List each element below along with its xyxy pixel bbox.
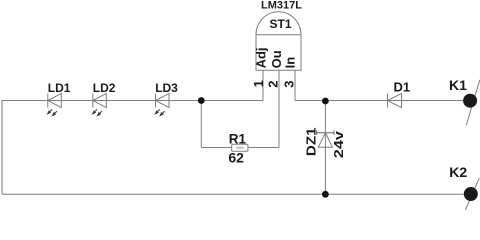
svg-text:1: 1	[251, 80, 266, 87]
svg-text:D1: D1	[394, 80, 411, 95]
svg-text:K1: K1	[449, 77, 467, 93]
wire bottom rail	[2, 193, 464, 195]
LED LD1	[48, 93, 62, 107]
svg-text:K2: K2	[449, 164, 467, 180]
wire Adj node drop to R1	[200, 101, 202, 148]
wire DZ1 vertical	[324, 101, 326, 195]
svg-text:R1: R1	[229, 131, 247, 146]
svg-text:LM317L: LM317L	[261, 0, 302, 12]
wire pin 2 drop to R1	[278, 70, 280, 147]
svg-text:3: 3	[282, 81, 297, 88]
node junction bottom rail / DZ1	[322, 191, 329, 198]
LED LD1 emission arrows	[48, 109, 57, 115]
svg-text:LD1: LD1	[48, 81, 71, 95]
LED LD2 emission arrows	[93, 109, 102, 115]
wire R1 horizontal	[201, 147, 279, 149]
svg-text:ST1: ST1	[270, 17, 292, 31]
node junction Adj/LED string	[198, 97, 205, 104]
wire In rail to D1 and K1	[295, 100, 463, 102]
LED LD3 emission arrows	[155, 109, 164, 115]
svg-text:LD3: LD3	[155, 81, 178, 95]
wire pin 3 drop	[294, 70, 296, 100]
node junction In rail / DZ1	[322, 98, 329, 105]
zener diode DZ1	[317, 130, 334, 135]
svg-text:In: In	[283, 57, 298, 69]
terminal K2	[464, 178, 480, 210]
svg-text:DZ1: DZ1	[303, 128, 318, 157]
terminal K1	[463, 80, 480, 125]
wire top rail (LED string to Adj pin)	[2, 100, 263, 102]
resistor R1 body	[232, 144, 248, 151]
svg-text:24v: 24v	[331, 130, 346, 158]
wire pin 1 drop	[262, 70, 264, 100]
svg-text:2: 2	[266, 81, 281, 88]
svg-text:62: 62	[228, 149, 244, 165]
LED LD2	[93, 93, 107, 107]
diode D1	[388, 93, 402, 107]
regulator U ST1 package outline	[256, 12, 301, 70]
svg-text:Adj: Adj	[254, 47, 269, 68]
LED LD3	[156, 93, 170, 107]
wire left vertical drop	[1, 101, 3, 195]
svg-text:LD2: LD2	[93, 81, 116, 95]
